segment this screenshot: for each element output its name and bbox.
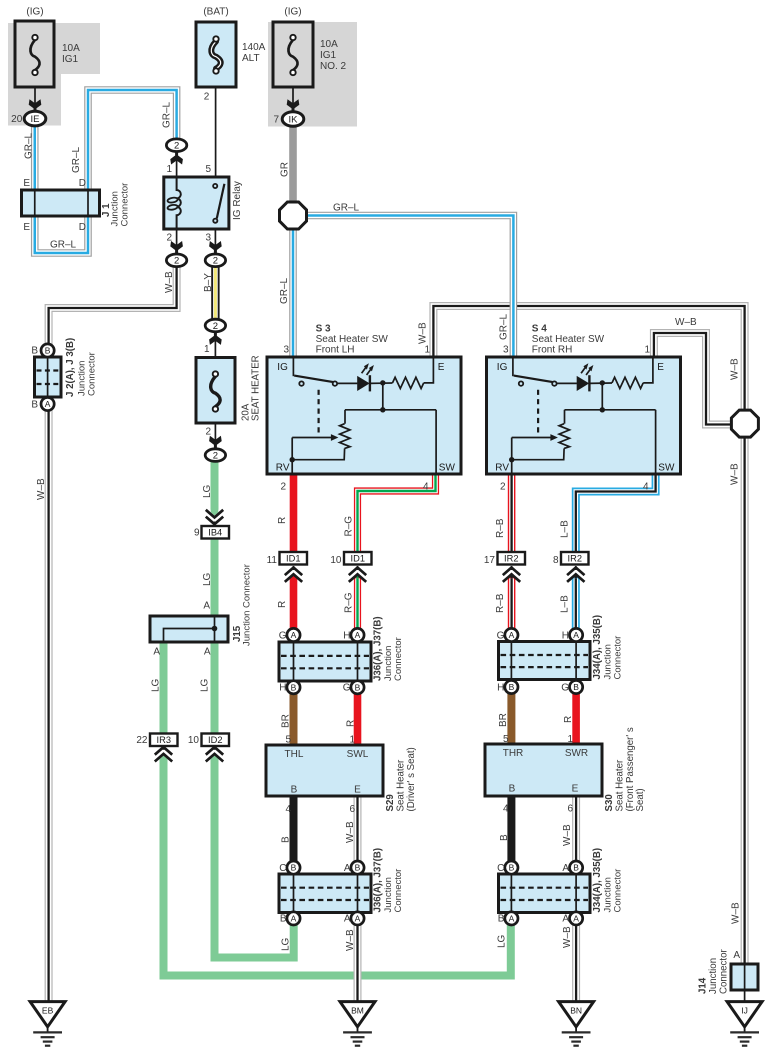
S3 internal junction (380, 380, 385, 385)
svg-text:IG1: IG1 (62, 54, 79, 65)
svg-text:SEAT HEATER: SEAT HEATER (250, 355, 261, 421)
wire W-B splice to J14 (741, 437, 749, 965)
svg-text:Connector: Connector (718, 949, 729, 994)
relay switch (217, 184, 225, 219)
svg-text:IE: IE (31, 114, 40, 125)
wire R J36 to S29 SWL (354, 694, 362, 746)
connector 17 IR2 (498, 552, 526, 565)
wire LG fuse to IB4 (211, 461, 219, 510)
connector oval 2 (relay pin2) (166, 254, 186, 267)
stub fuse ALT to relay pin5 (215, 75, 217, 178)
arrow relay pin2 (170, 241, 183, 253)
pin B J34 upper-right-bottom (570, 680, 583, 693)
pin A J36 upper-left (287, 628, 300, 641)
svg-text:B: B (573, 682, 579, 692)
svg-text:Front LH: Front LH (316, 345, 355, 356)
svg-text:EB: EB (42, 1005, 54, 1015)
pointed tip R-G below ID1 (354, 573, 362, 579)
svg-text:THR: THR (503, 748, 524, 759)
svg-text:H: H (279, 683, 286, 694)
pin A J2/J3 bottom (41, 397, 54, 410)
svg-text:Seat): Seat) (635, 788, 646, 811)
arrow into oval relay pin1 (170, 152, 183, 164)
fuse 10A IG1 (15, 21, 54, 87)
svg-text:S 3: S 3 (316, 324, 331, 335)
svg-text:LG: LG (281, 937, 292, 951)
wire L-B IR2 to J34 (572, 578, 580, 628)
svg-text:7: 7 (273, 115, 279, 126)
svg-text:J36(A), J37(B): J36(A), J37(B) (373, 616, 384, 681)
wire R-B IR2 to J34 (508, 578, 516, 628)
svg-text:GR–L: GR–L (162, 101, 173, 128)
svg-text:B: B (355, 863, 361, 873)
fusible link 140A ALT (196, 22, 236, 87)
svg-text:B: B (281, 836, 292, 843)
arrow into IK (287, 99, 300, 111)
svg-text:2: 2 (213, 451, 218, 462)
svg-text:R: R (563, 716, 574, 723)
svg-text:S 4: S 4 (532, 324, 547, 335)
svg-text:Seat Heater SW: Seat Heater SW (316, 334, 389, 345)
svg-text:10: 10 (188, 735, 200, 746)
svg-text:H: H (562, 630, 569, 641)
svg-text:B: B (291, 785, 298, 796)
svg-text:E: E (23, 222, 30, 233)
junction connector J2(A) J3(B) (35, 357, 62, 397)
heater unit S30 (Front Passenger Seat) (485, 744, 602, 796)
svg-text:G: G (561, 682, 569, 693)
connector 11 ID1 (280, 552, 308, 565)
svg-text:A: A (573, 630, 579, 640)
svg-text:1: 1 (166, 164, 172, 175)
svg-text:C: C (497, 863, 504, 874)
svg-text:B: B (509, 784, 516, 795)
stub oval to fuse SEAT HTR pin1 (214, 332, 216, 372)
svg-text:20: 20 (11, 114, 23, 125)
svg-text:2: 2 (213, 321, 218, 332)
svg-text:10: 10 (330, 555, 342, 566)
chevrons IR2 right (567, 568, 584, 582)
svg-text:LG: LG (151, 678, 162, 692)
wire R-B S4 pin2 to IR2 (508, 473, 516, 552)
svg-text:SW: SW (658, 463, 675, 474)
chevrons IR2 left (503, 568, 520, 582)
svg-text:A: A (291, 630, 297, 640)
wire GR-L IE through J1 to IG relay (35, 90, 177, 253)
svg-text:J36(A), J37(B): J36(A), J37(B) (373, 848, 384, 913)
svg-text:LG: LG (202, 484, 213, 498)
connector oval 2 (relay pin1) (166, 139, 186, 152)
svg-text:B–Y: B–Y (203, 273, 214, 292)
svg-text:E: E (438, 362, 445, 373)
svg-text:1: 1 (424, 345, 430, 356)
S3 internal resistor (393, 377, 424, 388)
S4 mechanical link (dashed) (537, 390, 539, 433)
svg-text:R–B: R–B (495, 593, 506, 613)
relay coil (177, 177, 181, 229)
background block behind IG1 NO.2 fuse (268, 22, 357, 127)
svg-text:W–B: W–B (731, 902, 742, 924)
svg-text:2: 2 (280, 482, 286, 493)
pin B J36 upper-left-bottom (287, 681, 300, 694)
wire W-B J36 to BM ground (354, 924, 362, 1002)
svg-text:L–B: L–B (560, 520, 571, 538)
svg-text:4: 4 (643, 482, 649, 493)
pin A J34 upper-left (505, 628, 518, 641)
ground BM (340, 1002, 375, 1046)
fuse 20A SEAT HEATER (196, 358, 235, 424)
wire GR-L splice to S4 pin3 (307, 216, 514, 358)
connector oval 2 (relay pin3) (205, 254, 225, 267)
svg-text:1: 1 (644, 345, 650, 356)
svg-text:GR: GR (280, 162, 291, 177)
svg-text:SWR: SWR (565, 748, 588, 759)
svg-text:A: A (45, 399, 51, 409)
wire B S30 pin4 to J34 (507, 796, 515, 862)
svg-text:GR–L: GR–L (24, 132, 35, 159)
svg-text:BR: BR (281, 714, 292, 728)
svg-text:IB4: IB4 (208, 528, 222, 538)
svg-text:G: G (279, 630, 287, 641)
pointed tip R below ID1 (290, 573, 298, 579)
pointed tip R-B below IR2 (508, 573, 516, 579)
wire B S29 pin4 to J36 (290, 796, 298, 862)
S3 mechanical link (dashed) (318, 390, 320, 433)
S4 rheostat (564, 410, 566, 424)
svg-text:W–B: W–B (36, 478, 47, 500)
svg-text:SWL: SWL (347, 749, 369, 760)
svg-text:IK: IK (289, 114, 299, 125)
svg-text:E: E (23, 178, 30, 189)
svg-text:SW: SW (439, 463, 456, 474)
svg-text:2: 2 (166, 233, 172, 244)
ground BN (559, 1002, 594, 1046)
svg-text:IR2: IR2 (504, 554, 518, 564)
svg-text:Seat Heater SW: Seat Heater SW (532, 334, 605, 345)
junction connector J36(A) J37(B) lower (279, 874, 371, 913)
svg-text:ID2: ID2 (208, 735, 222, 745)
junction connector J14 (731, 964, 758, 990)
svg-text:2: 2 (204, 92, 210, 103)
svg-text:D: D (79, 222, 86, 233)
svg-text:3: 3 (205, 233, 211, 244)
svg-text:17: 17 (484, 555, 496, 566)
wire W-B relay pin2 through J2/J3 to EB (49, 267, 177, 1003)
wire R-G S3 pin4 to ID1 (358, 474, 436, 552)
connector 8 IR2 (561, 552, 589, 565)
svg-text:Connector: Connector (393, 637, 404, 681)
svg-text:E: E (572, 784, 579, 795)
junction connector J36(A) J37(B) upper (279, 642, 371, 681)
svg-text:NO. 2: NO. 2 (320, 61, 347, 72)
svg-text:140A: 140A (242, 42, 266, 53)
svg-text:4: 4 (423, 482, 429, 493)
svg-text:5: 5 (503, 734, 509, 745)
svg-text:J34(A), J35(B): J34(A), J35(B) (592, 848, 603, 913)
S3 wiper arrow (292, 437, 331, 439)
wire W-B S29 pin6 to J36 (354, 796, 362, 862)
svg-text:BM: BM (351, 1005, 364, 1015)
background block behind IG1 fuse (8, 23, 100, 126)
svg-text:1: 1 (204, 344, 210, 355)
svg-text:IG: IG (277, 362, 288, 373)
svg-text:ID1: ID1 (286, 554, 300, 564)
svg-text:IR2: IR2 (568, 554, 582, 564)
svg-text:W–B: W–B (730, 358, 741, 380)
pointed tip LG into IB4 (211, 509, 219, 515)
pin B J34 lower-left (505, 861, 518, 874)
wire GR IK to splice (289, 126, 297, 203)
svg-text:BN: BN (570, 1005, 582, 1015)
svg-text:R: R (277, 517, 288, 524)
wire LG ID2 to J36 (215, 758, 294, 958)
svg-text:Connector: Connector (612, 869, 623, 913)
wire R ID1 to J36 (290, 578, 298, 628)
svg-text:R–B: R–B (495, 518, 506, 538)
pin B J2/J3 top (41, 344, 54, 357)
connector 10 ID2 (202, 734, 230, 747)
S3 internal switch (292, 357, 294, 376)
svg-text:J 2(A), J 3(B): J 2(A), J 3(B) (65, 338, 76, 397)
svg-text:Front RH: Front RH (532, 345, 573, 356)
connector 22 IR3 (150, 734, 178, 747)
svg-text:A: A (204, 647, 211, 658)
stub relay pin3 to oval (214, 229, 216, 254)
svg-text:W–B: W–B (675, 317, 697, 328)
svg-text:GR–L: GR–L (279, 277, 290, 304)
chevrons ID1 left (285, 568, 302, 582)
svg-text:B: B (498, 914, 505, 925)
chevrons into IB4 (206, 510, 223, 524)
svg-text:10A: 10A (320, 39, 338, 50)
svg-text:3: 3 (283, 345, 289, 356)
svg-text:IR3: IR3 (157, 735, 171, 745)
svg-text:BR: BR (498, 713, 509, 727)
svg-text:RV: RV (495, 463, 509, 474)
pointed tip L-B below IR2 (572, 573, 580, 579)
svg-text:B: B (291, 682, 297, 692)
svg-text:B: B (45, 346, 51, 356)
svg-text:C: C (279, 863, 286, 874)
switch box S4 (487, 357, 681, 474)
pin B J36 lower-left (287, 861, 300, 874)
stub fuse IG1 to IE (34, 75, 36, 112)
pin A J36 lower-right-bottom (351, 912, 364, 925)
svg-text:B: B (509, 682, 515, 692)
svg-text:IJ: IJ (741, 1005, 748, 1015)
svg-text:H: H (497, 682, 504, 693)
connector 7 IK (282, 112, 304, 127)
svg-text:A: A (355, 914, 361, 924)
pin B J34 upper-left-bottom (505, 680, 518, 693)
svg-text:A: A (291, 914, 297, 924)
svg-text:LG: LG (497, 934, 508, 948)
wire GR-L splice to S3 pin3 (289, 229, 297, 357)
svg-text:R–G: R–G (344, 516, 355, 537)
svg-text:1: 1 (349, 735, 355, 746)
svg-text:11: 11 (267, 555, 278, 566)
switch box S3 (267, 357, 461, 474)
chevrons IR3 (155, 747, 172, 761)
stub fuse IG1 NO.2 to IK (292, 75, 294, 112)
svg-text:B: B (31, 400, 38, 411)
S4 LED indicator (577, 376, 590, 391)
S4 internal junction (600, 380, 605, 385)
connector 20 IE (24, 111, 46, 126)
svg-text:A: A (344, 914, 351, 925)
S4 wiper arrow (512, 437, 551, 439)
wire W-B S30 pin6 to J34 (572, 796, 580, 862)
svg-text:RV: RV (276, 463, 290, 474)
svg-text:Junction Connector: Junction Connector (242, 564, 253, 646)
svg-text:5: 5 (285, 735, 291, 746)
wire LG IB4 to ID2 via J15 (211, 538, 219, 734)
svg-text:R–G: R–G (344, 592, 355, 613)
svg-text:G: G (497, 630, 505, 641)
arrow relay pin3 (209, 241, 222, 253)
pointed tip LG below IR3 (160, 752, 168, 758)
svg-text:Connector: Connector (612, 636, 623, 680)
svg-text:IG1: IG1 (320, 50, 337, 61)
S4 internal resistor (612, 377, 643, 388)
svg-text:W–B: W–B (345, 929, 356, 951)
svg-text:(Driver' s Seat): (Driver' s Seat) (406, 747, 417, 811)
svg-text:2: 2 (174, 141, 179, 152)
junction connector J1 (22, 190, 100, 216)
svg-text:A: A (562, 914, 569, 925)
svg-text:4: 4 (503, 803, 509, 814)
junction connector J34(A) J35(B) upper (499, 642, 591, 680)
junction connector J15 (150, 616, 228, 642)
svg-text:W–B: W–B (730, 463, 741, 485)
svg-text:A: A (562, 863, 569, 874)
svg-text:(BAT): (BAT) (203, 7, 228, 18)
svg-text:Connector: Connector (119, 183, 130, 227)
svg-text:8: 8 (553, 555, 559, 566)
svg-text:LG: LG (200, 678, 211, 692)
pointed tip LG below ID2 (211, 752, 219, 758)
wire W-B S4 pin1 to splice (654, 333, 732, 425)
splice (GR wire node) (280, 202, 307, 229)
pin A J34 lower-right-bottom (570, 912, 583, 925)
S4 internal switch (512, 357, 514, 376)
svg-text:J34(A), J35(B): J34(A), J35(B) (592, 615, 603, 680)
svg-text:22: 22 (136, 735, 148, 746)
pin A J34 upper-right (570, 628, 583, 641)
svg-text:9: 9 (194, 528, 200, 539)
svg-text:B: B (573, 863, 579, 873)
svg-text:B: B (31, 346, 38, 357)
svg-text:A: A (509, 914, 515, 924)
svg-text:W–B: W–B (418, 322, 429, 344)
svg-text:A: A (573, 914, 579, 924)
stub oval to relay pin1 (176, 152, 178, 178)
connector 9 IB4 (202, 526, 230, 539)
svg-text:D: D (79, 178, 86, 189)
splice (W-B wire node) (731, 410, 758, 437)
arrow fuse pin2 (209, 436, 222, 448)
chevrons ID1 right (349, 568, 366, 582)
wire R J34 to S30 SWR (572, 693, 580, 744)
svg-text:A: A (509, 630, 515, 640)
svg-text:2: 2 (174, 256, 179, 267)
svg-text:10A: 10A (62, 43, 80, 54)
wire W-B S3 pin1 to splice (433, 306, 744, 410)
svg-text:6: 6 (567, 803, 573, 814)
pin A J36 upper-right (351, 628, 364, 641)
svg-text:R: R (346, 720, 357, 727)
svg-text:R: R (277, 601, 288, 608)
arrow into IE (29, 99, 42, 111)
stub fuse SEAT HTR pin2 to oval (214, 412, 216, 449)
svg-text:W–B: W–B (164, 271, 175, 293)
wire W-B J34 to BN ground (572, 924, 580, 1002)
chevrons ID2 (206, 747, 223, 761)
svg-text:B: B (499, 834, 510, 841)
svg-text:1: 1 (567, 734, 573, 745)
heater unit S29 (Driver Seat) (266, 745, 383, 796)
svg-text:ID1: ID1 (351, 554, 365, 564)
fuse 10A IG1 NO.2 (273, 22, 313, 87)
svg-text:THL: THL (285, 749, 304, 760)
svg-text:IG: IG (497, 362, 508, 373)
svg-text:(IG): (IG) (284, 7, 301, 18)
svg-text:Connector: Connector (86, 352, 97, 396)
wire L-B S4 pin4 to IR2 (576, 473, 656, 552)
svg-text:Connector: Connector (393, 869, 404, 913)
wire LG IR3 to J34 (164, 758, 511, 976)
svg-text:B: B (291, 863, 297, 873)
wire BR J36 to S29 THL (290, 694, 298, 746)
ground EB (30, 1002, 65, 1046)
arrow into oval fuse pin1 (209, 333, 222, 345)
svg-text:A: A (153, 647, 160, 658)
svg-text:B: B (355, 682, 361, 692)
S3 LED indicator (357, 376, 370, 391)
svg-text:W–B: W–B (345, 821, 356, 843)
svg-text:A: A (344, 863, 351, 874)
pin B J36 lower-right (351, 861, 364, 874)
svg-text:ALT: ALT (242, 53, 260, 64)
connector oval 2 (fuse pin2) (205, 449, 225, 462)
svg-text:GR–L: GR–L (71, 146, 82, 173)
svg-text:GR–L: GR–L (50, 240, 77, 251)
svg-text:W–B: W–B (562, 926, 573, 948)
svg-text:A: A (355, 630, 361, 640)
stub relay pin2 to oval (176, 229, 178, 254)
svg-text:GR–L: GR–L (499, 313, 510, 340)
svg-text:2: 2 (213, 256, 218, 267)
svg-text:H: H (343, 630, 350, 641)
svg-text:E: E (657, 362, 664, 373)
S3 rheostat (344, 410, 346, 424)
svg-text:GR–L: GR–L (333, 203, 360, 214)
svg-text:2: 2 (205, 427, 211, 438)
svg-text:A: A (203, 601, 210, 612)
wire LG J15 to IR3 (160, 642, 168, 734)
wire B-Y relay pin3 to fuse (211, 267, 219, 320)
svg-text:LG: LG (202, 572, 213, 586)
svg-text:B: B (509, 863, 515, 873)
pin B J34 lower-right (570, 861, 583, 874)
junction connector J34(A) J35(B) lower (499, 874, 591, 913)
svg-text:B: B (280, 914, 287, 925)
wire BR J34 to S30 THR (507, 693, 515, 744)
ground IJ (727, 1002, 762, 1046)
svg-text:G: G (343, 683, 351, 694)
pin B J36 upper-right-bottom (351, 681, 364, 694)
svg-text:IG Relay: IG Relay (232, 181, 243, 220)
